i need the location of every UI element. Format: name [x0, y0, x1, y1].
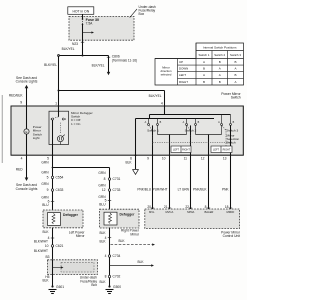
svg-text:Switch: Switch: [231, 95, 241, 99]
svg-text:BLK: BLK: [42, 230, 49, 234]
svg-text:8: 8: [104, 177, 106, 181]
svg-text:A: A: [234, 80, 236, 84]
svg-text:C621: C621: [56, 244, 64, 248]
svg-text:E: E: [25, 130, 27, 134]
svg-text:A: A: [219, 67, 221, 71]
svg-text:GRN: GRN: [41, 171, 49, 175]
svg-text:B: B: [203, 80, 205, 84]
svg-text:1 = On: 1 = On: [71, 122, 81, 126]
svg-text:9: 9: [47, 188, 49, 192]
svg-text:Console Lights: Console Lights: [16, 187, 38, 191]
svg-text:C633: C633: [56, 188, 64, 192]
svg-text:(Terminals 11-16): (Terminals 11-16): [112, 59, 137, 63]
svg-text:LEFT: LEFT: [179, 73, 186, 77]
svg-text:GRN: GRN: [41, 182, 49, 186]
svg-text:Switch 3: Switch 3: [230, 53, 241, 57]
svg-text:Switch 1: Switch 1: [199, 53, 210, 57]
svg-text:BLK: BLK: [119, 239, 126, 243]
svg-text:Defogger: Defogger: [120, 212, 136, 216]
svg-text:9: 9: [20, 100, 22, 104]
svg-text:PNK: PNK: [222, 188, 229, 192]
svg-text:LEFT: LEFT: [213, 149, 220, 152]
svg-text:7.5A: 7.5A: [86, 22, 94, 26]
svg-text:BALER: BALER: [205, 210, 214, 214]
svg-text:Internal Switch Positions: Internal Switch Positions: [203, 45, 237, 49]
svg-text:C734: C734: [113, 254, 121, 258]
svg-text:18: 18: [225, 205, 229, 209]
svg-text:PNK/BLK: PNK/BLK: [193, 188, 207, 192]
svg-text:MRDF: MRDF: [227, 210, 235, 214]
svg-text:BLK/YEL: BLK/YEL: [44, 63, 57, 67]
svg-text:Defogger: Defogger: [63, 213, 79, 217]
svg-text:HOT in ON: HOT in ON: [72, 9, 89, 13]
svg-text:10: 10: [162, 156, 166, 160]
svg-text:9: 9: [147, 156, 149, 160]
svg-text:Mirror: Mirror: [76, 234, 86, 238]
svg-text:21: 21: [164, 205, 168, 209]
svg-text:Console Lights: Console Lights: [16, 80, 38, 84]
svg-text:B: B: [234, 60, 236, 64]
svg-text:Light: Light: [33, 136, 40, 140]
svg-text:RIGHT: RIGHT: [179, 80, 188, 84]
svg-text:12: 12: [102, 188, 106, 192]
svg-text:GRN: GRN: [41, 161, 49, 165]
svg-text:RED: RED: [16, 167, 23, 171]
svg-text:Switch 3: Switch 3: [227, 128, 239, 132]
svg-text:Control Unit: Control Unit: [223, 234, 240, 238]
svg-text:A: A: [234, 67, 236, 71]
svg-text:10: 10: [45, 244, 49, 248]
svg-text:PUR/WHT: PUR/WHT: [153, 188, 168, 192]
svg-text:4: 4: [105, 254, 107, 258]
svg-text:B: B: [219, 60, 221, 64]
svg-text:BLK/YEL: BLK/YEL: [62, 47, 75, 51]
svg-text:B: B: [234, 73, 236, 77]
svg-text:N23: N23: [72, 42, 78, 46]
svg-text:PNK/BLU: PNK/BLU: [137, 188, 151, 192]
svg-text:8: 8: [205, 205, 207, 209]
svg-text:BLK/YEL: BLK/YEL: [92, 64, 105, 68]
svg-text:BLK/WHT: BLK/WHT: [34, 239, 48, 243]
svg-text:4: 4: [161, 102, 163, 106]
svg-text:BLK/YEL: BLK/YEL: [149, 94, 162, 98]
svg-text:B: B: [203, 67, 205, 71]
svg-text:C702: C702: [113, 275, 121, 279]
svg-text:B3: B3: [45, 255, 49, 259]
svg-text:12: 12: [201, 156, 205, 160]
svg-text:RED/BLK: RED/BLK: [9, 94, 24, 98]
svg-text:UP: UP: [179, 60, 183, 64]
svg-text:GRN: GRN: [98, 171, 106, 175]
svg-text:G500: G500: [113, 285, 121, 289]
svg-text:BLU: BLU: [42, 203, 49, 207]
svg-text:C733: C733: [113, 188, 121, 192]
svg-text:SPDA: SPDA: [187, 210, 195, 214]
svg-text:11: 11: [184, 156, 188, 160]
svg-text:Switch: Switch: [227, 140, 236, 144]
svg-text:BLK: BLK: [99, 240, 106, 244]
svg-text:MVCA: MVCA: [166, 210, 174, 214]
svg-text:LT GRN: LT GRN: [178, 188, 190, 192]
svg-text:BLK: BLK: [99, 280, 106, 284]
svg-text:DOWN: DOWN: [179, 67, 188, 71]
svg-text:GRN: GRN: [98, 184, 106, 188]
svg-text:BLK/WHT: BLK/WHT: [34, 249, 48, 253]
svg-text:8: 8: [105, 275, 107, 279]
svg-text:G601: G601: [56, 285, 64, 289]
svg-text:BLK: BLK: [42, 279, 49, 283]
svg-text:selected: selected: [161, 72, 172, 76]
svg-text:Box: Box: [91, 283, 97, 287]
svg-text:Switch 2: Switch 2: [214, 53, 225, 57]
svg-text:LEFT: LEFT: [173, 149, 180, 152]
svg-text:A: A: [203, 73, 205, 77]
svg-text:C731: C731: [113, 177, 121, 181]
svg-text:A: A: [219, 73, 221, 77]
svg-text:4: 4: [21, 156, 23, 160]
svg-text:B: B: [219, 80, 221, 84]
svg-text:BLU: BLU: [99, 203, 106, 207]
svg-text:A: A: [203, 60, 205, 64]
svg-text:1: 1: [55, 102, 57, 106]
svg-text:5: 5: [47, 176, 49, 180]
svg-text:22: 22: [185, 205, 189, 209]
svg-text:13: 13: [223, 156, 227, 160]
svg-text:RIGHT: RIGHT: [182, 149, 190, 152]
svg-text:RIGHT: RIGHT: [223, 149, 231, 152]
svg-text:Box: Box: [139, 12, 145, 16]
svg-text:Mirror: Mirror: [130, 232, 140, 236]
svg-text:20: 20: [147, 205, 151, 209]
svg-text:MVL: MVL: [149, 210, 155, 214]
svg-text:BLK: BLK: [125, 161, 132, 165]
svg-text:BLK: BLK: [99, 231, 106, 235]
svg-text:C554: C554: [56, 176, 64, 180]
svg-text:BLK: BLK: [137, 260, 144, 264]
